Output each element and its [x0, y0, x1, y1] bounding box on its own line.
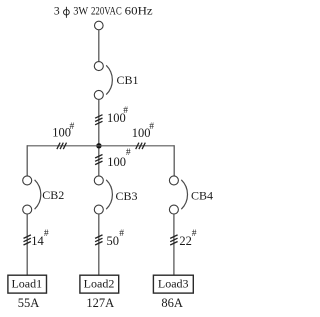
Load1 box: [8, 275, 47, 293]
svg-text:100: 100: [132, 126, 151, 140]
title: 3 phase 3W 220VAC 60Hz source label: [54, 3, 153, 17]
svg-text:CB2: CB2: [42, 188, 64, 202]
branch ticks (22#): [170, 235, 177, 245]
circuit breaker CB1: [94, 62, 112, 100]
junction node: [96, 143, 101, 148]
svg-text:22: 22: [179, 234, 192, 248]
svg-text:Load2: Load2: [84, 276, 115, 290]
svg-text:CB3: CB3: [116, 189, 138, 203]
Load2 box: [80, 275, 119, 293]
svg-text:100: 100: [107, 155, 126, 169]
svg-text:50: 50: [107, 234, 120, 248]
svg-text:#: #: [119, 229, 124, 239]
feeder ticks left (100#): [57, 143, 67, 150]
feeder size ticks (100#) on main riser: [95, 115, 102, 125]
bus wire (horizontal): [27, 145, 174, 147]
svg-text:#: #: [192, 229, 197, 239]
svg-text:14: 14: [31, 234, 44, 248]
wire: source to CB1: [98, 30, 100, 62]
phi symbol: [64, 10, 70, 15]
svg-text:55A: 55A: [18, 296, 40, 310]
feeder ticks middle (100#): [95, 155, 102, 165]
svg-text:#: #: [44, 229, 49, 239]
feeder ticks right (100#): [136, 143, 146, 150]
circuit breaker CB2: [23, 176, 41, 214]
right branch drop wire: [173, 145, 175, 176]
circuit breaker CB4: [169, 176, 187, 214]
svg-text:Load3: Load3: [158, 276, 189, 290]
wire: CB3 to Load2: [98, 214, 100, 275]
svg-text:60Hz: 60Hz: [125, 3, 153, 17]
Load3 box: [153, 275, 193, 293]
left branch drop wire: [26, 145, 28, 176]
wire: junction to CB3: [98, 148, 100, 176]
wire: CB2 to Load1: [26, 214, 28, 275]
svg-text:Load1: Load1: [11, 276, 42, 290]
svg-text:#: #: [123, 106, 128, 116]
svg-text:3W: 3W: [73, 3, 89, 17]
wire: CB1 to junction: [98, 99, 100, 145]
svg-text:100: 100: [52, 126, 71, 140]
svg-text:#: #: [126, 148, 131, 158]
source terminal node: [95, 21, 104, 30]
svg-text:CB1: CB1: [117, 73, 139, 87]
wire: CB4 to Load3: [173, 214, 175, 275]
svg-text:CB4: CB4: [191, 188, 213, 202]
svg-text:#: #: [70, 122, 75, 132]
svg-text:3: 3: [54, 3, 60, 17]
branch ticks (50#): [95, 235, 102, 245]
svg-text:86A: 86A: [161, 296, 183, 310]
svg-text:220VAC: 220VAC: [91, 3, 122, 17]
svg-text:127A: 127A: [86, 296, 114, 310]
circuit breaker CB3: [94, 176, 112, 214]
svg-text:#: #: [149, 122, 154, 132]
branch ticks (14#): [24, 235, 31, 245]
